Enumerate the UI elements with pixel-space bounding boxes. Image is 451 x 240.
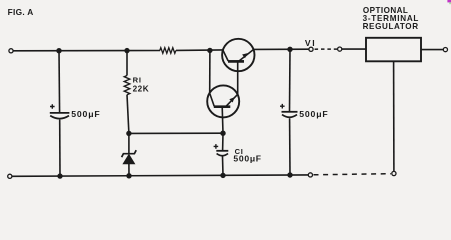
regulator U1 box <box>366 38 421 62</box>
wire Q1 collector <box>210 93 215 106</box>
node top of C input cap <box>56 48 61 53</box>
terminal regulator ground <box>392 171 396 175</box>
wire top rail left <box>13 50 160 52</box>
svg-text:FIG. A: FIG. A <box>8 7 34 17</box>
wire node line to C1 <box>129 132 223 134</box>
node bottom C1 <box>220 173 225 178</box>
svg-text:REGULATOR: REGULATOR <box>363 22 419 31</box>
resistor R1 <box>126 51 128 76</box>
node top of output cap <box>287 47 292 52</box>
svg-text:22K: 22K <box>133 85 150 94</box>
wire into regulator <box>342 48 366 50</box>
transistor Q2 (pass) <box>222 39 254 71</box>
node bottom output cap <box>287 172 292 177</box>
wire Q2 collector <box>223 50 228 61</box>
plus sign output cap <box>280 104 285 109</box>
capacitor C1 <box>222 133 224 151</box>
node Q1 collector on rail <box>207 48 212 53</box>
terminal VI <box>309 47 313 51</box>
plus sign input cap <box>50 104 55 109</box>
wire bottom rail <box>12 175 308 176</box>
node top of R1 <box>124 48 129 53</box>
terminal regulator input <box>338 47 342 51</box>
terminal output <box>443 48 447 52</box>
scan artifact magenta corner <box>447 0 451 2</box>
wire regulator ground lead <box>393 61 395 171</box>
wire top rail to Q2 <box>176 49 223 52</box>
capacitor 500uF output <box>289 49 292 112</box>
svg-text:500μF: 500μF <box>233 154 261 164</box>
wire dashed bottom <box>314 174 392 175</box>
svg-text:RI: RI <box>133 75 142 84</box>
transistor Q1 (driver) <box>207 85 239 117</box>
node R1/zener <box>126 131 131 136</box>
wire Q1 emitter <box>226 94 238 106</box>
wire dashed to regulator <box>315 48 338 50</box>
plus sign C1 <box>214 144 219 149</box>
svg-text:500μF: 500μF <box>71 109 100 119</box>
wire Q1 base <box>221 107 224 134</box>
wire regulator output <box>421 49 443 51</box>
capacitor 500uF input <box>58 51 61 113</box>
svg-text:VI: VI <box>305 38 316 48</box>
wire Q2 base / Q1 emitter link <box>237 61 239 94</box>
terminal input bottom-left <box>8 174 12 178</box>
wire output rail <box>254 48 309 50</box>
zener diode <box>128 133 130 154</box>
node bottom input cap <box>57 173 62 178</box>
terminal bottom dashed start <box>308 173 312 177</box>
svg-text:500μF: 500μF <box>299 109 328 119</box>
wire Q2 emitter <box>239 50 254 62</box>
node bottom zener <box>126 173 131 178</box>
node base Q1 / C1 <box>220 131 225 136</box>
terminal input top-left <box>9 49 13 53</box>
resistor series (top rail) <box>160 48 176 54</box>
